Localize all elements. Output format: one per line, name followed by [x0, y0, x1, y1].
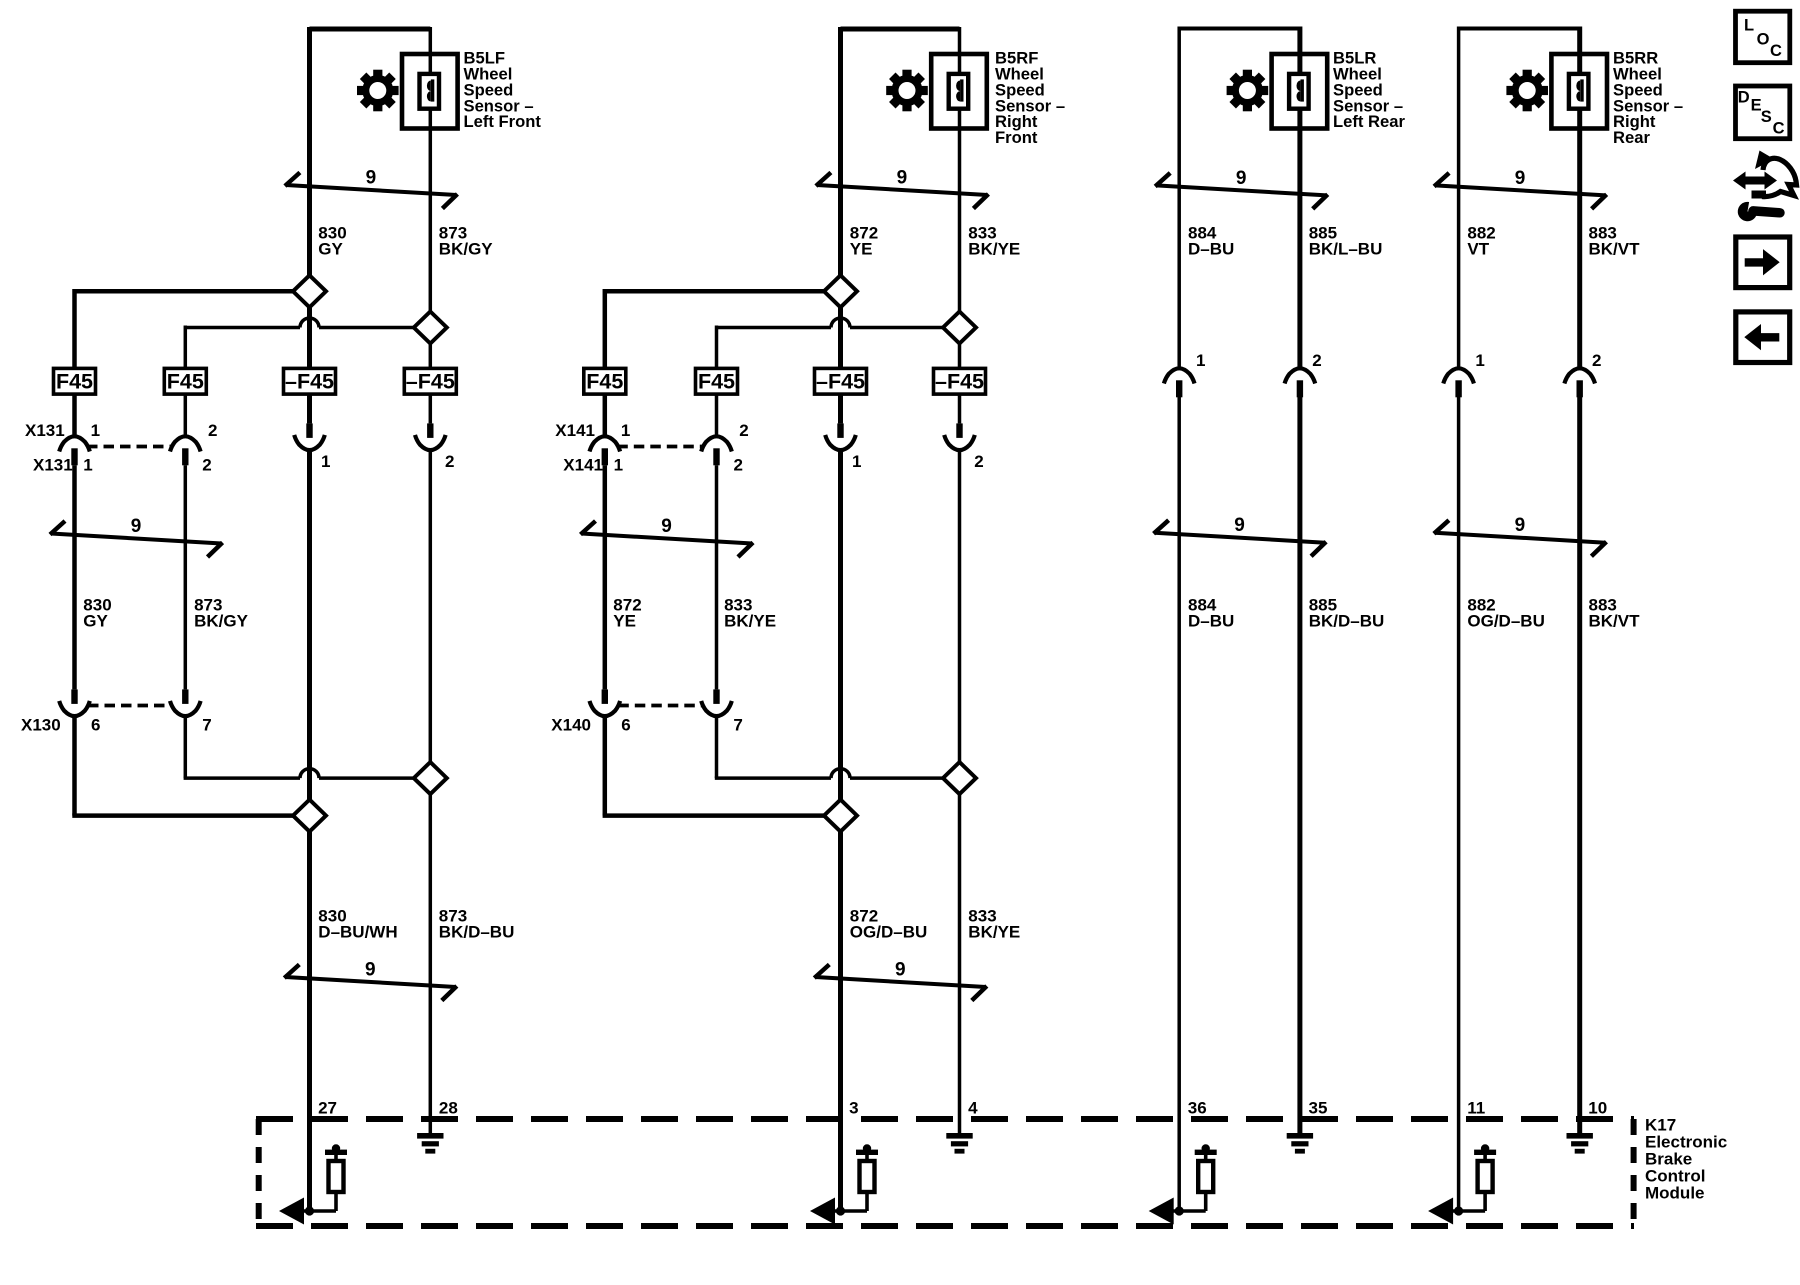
svg-text:–F45: –F45: [285, 370, 334, 394]
wire 873-circuit B5LF upper: [429, 27, 433, 368]
svg-text:830GY: 830GY: [83, 596, 111, 631]
splice B5LF S2: [414, 312, 447, 344]
wire B5LF branch 1 to X131: [72, 394, 77, 435]
wire 830-circuit B5LF upper: [307, 27, 312, 368]
svg-text:–F45: –F45: [935, 370, 984, 394]
EBCM input at pin 3: internal sense resistor: [856, 1144, 878, 1211]
svg-text:2: 2: [1312, 351, 1321, 370]
svg-text:1: 1: [852, 452, 861, 471]
fuse box –F45 (B5LF main1): [284, 368, 336, 394]
LOC box: [1736, 11, 1790, 63]
fuse box F45 (B5RF br1): [584, 368, 626, 394]
svg-text:9: 9: [1234, 515, 1245, 536]
svg-text:1: 1: [614, 456, 623, 475]
wire B5RF branch 2 mid: [715, 465, 719, 689]
inline connector B5LF main2 inline: pin (top) and female terminal: [415, 423, 446, 450]
twisted pair marker B5RF top: [816, 173, 989, 209]
svg-text:X141: X141: [563, 456, 603, 475]
EBCM input at pin 36: internal sense resistor: [1195, 1144, 1217, 1211]
wire B5RF branch 2 rejoin (hops over x=840.5): [715, 769, 950, 779]
wire B5RF main 1 to conn: [838, 394, 843, 423]
wire B5RF branch 1 to X141: [603, 394, 608, 435]
svg-text:O: O: [1757, 31, 1770, 49]
wire B5RR circuit A upper: [1457, 27, 1461, 368]
ground EBCM internal ground at pin 10: [1567, 1133, 1593, 1154]
wire B5RR circuit B lower: [1577, 397, 1582, 1134]
twisted pair marker B5RF mid: [581, 521, 754, 557]
twisted pair marker B5LF mid: [50, 521, 223, 557]
wire 873-circuit B5RF upper: [958, 27, 962, 368]
wire B5RF branch 1 upper: [603, 289, 608, 368]
svg-text:–F45: –F45: [816, 370, 865, 394]
svg-text:S: S: [1761, 108, 1772, 126]
fuse box F45 (B5LF br2): [164, 368, 206, 394]
inline connector B5RR inline pin 2: female terminal (top) and pin: [1564, 368, 1595, 397]
svg-text:F45: F45: [586, 370, 623, 394]
twisted pair marker B5LR mid: [1154, 520, 1327, 556]
inline connector X131 pin 1: female terminal (top) and pin: [59, 436, 90, 465]
wire B5RF main 2 to conn: [958, 394, 962, 423]
wire B5LF branch 1 upper: [72, 289, 77, 368]
fuse box –F45 (B5RF main1): [815, 368, 867, 394]
wire B5RF branch 2 upper: [715, 326, 719, 369]
inline connector X141 pin 1: female terminal (top) and pin: [590, 436, 621, 465]
svg-text:9: 9: [895, 960, 906, 981]
inline connector B5LR inline pin 2: female terminal (top) and pin: [1285, 368, 1316, 397]
inline connector X130 pin 6: pin (top) and female terminal: [59, 689, 90, 716]
wire 830-circuit B5RF upper: [838, 27, 843, 368]
svg-text:2: 2: [445, 452, 454, 471]
twisted pair marker B5RF bottom: [814, 965, 987, 1001]
wire B5LF branch 2 rejoin (hops over x=309.5): [184, 769, 421, 779]
svg-text:6: 6: [91, 716, 100, 735]
wire B5RF sensor jumper (top): [841, 27, 960, 32]
wire B5LR circuit A upper: [1177, 27, 1181, 368]
svg-text:9: 9: [661, 516, 672, 537]
wheel speed sensor B5LF body: [402, 54, 458, 129]
svg-text:X131: X131: [25, 421, 65, 440]
wire B5RF branch 2 lower: [715, 716, 719, 778]
wire B5LF branch 1 mid: [72, 465, 77, 689]
wire B5RF main 2 mid: [958, 451, 962, 1134]
wire B5LF branch 1 rejoin: [72, 813, 299, 818]
twisted pair marker B5RR mid: [1434, 520, 1607, 556]
svg-text:2: 2: [1592, 351, 1601, 370]
svg-text:D: D: [1738, 88, 1750, 106]
wrench part of icon: [1737, 196, 1781, 223]
tone wheel (gear) of B5RF: [886, 70, 928, 112]
connector dashed link X131: [87, 445, 171, 449]
wire B5LF branch 1 lower: [72, 716, 77, 815]
backward reference arrow box: [1736, 312, 1790, 363]
wire B5LF branch 2 lower: [184, 716, 188, 778]
wire B5RF branch 1 lower: [603, 716, 608, 815]
svg-text:9: 9: [366, 168, 377, 189]
inline connector B5LF main1 inline: pin (top) and female terminal: [294, 423, 325, 450]
EBCM input at pin 3: internal wire and arrow: [810, 1198, 867, 1225]
svg-text:1: 1: [91, 421, 100, 440]
twisted pair marker B5RR top: [1434, 173, 1607, 209]
inline connector B5LR inline pin 1: female terminal (top) and pin: [1164, 368, 1195, 397]
wire B5LR circuit B lower: [1297, 397, 1302, 1134]
tone wheel (gear) of B5RR: [1506, 70, 1548, 112]
wire B5RR circuit A lower: [1457, 397, 1461, 1211]
twisted pair marker B5LF bottom: [284, 965, 457, 1001]
wheel speed sensor B5LR body: [1272, 54, 1328, 129]
EBCM input at pin 36: internal wire and arrow: [1149, 1198, 1206, 1225]
svg-text:2: 2: [974, 452, 983, 471]
EBCM input at pin 27: internal sense resistor: [325, 1144, 347, 1211]
svg-text:6: 6: [621, 716, 630, 735]
inline connector B5RR inline pin 1: female terminal (top) and pin: [1443, 368, 1474, 397]
wire B5LR sensor jumper (top): [1179, 27, 1300, 31]
svg-text:9: 9: [365, 960, 376, 981]
wire B5LF main 2 to conn: [429, 394, 433, 423]
svg-text:10: 10: [1588, 1099, 1607, 1118]
wire B5LR circuit B upper: [1297, 27, 1302, 368]
splice B5RF S1: [824, 275, 857, 307]
wire B5LF main 1 mid: [307, 451, 312, 1211]
wheel speed sensor B5RF body: [931, 54, 987, 129]
tone wheel (gear) of B5LF: [357, 70, 399, 112]
twisted pair marker B5LR top: [1155, 173, 1328, 209]
splice B5LF S1: [293, 275, 326, 307]
wire B5LF branch 2 mid: [184, 465, 188, 689]
inline connector B5RF main2 inline: pin (top) and female terminal: [944, 423, 975, 450]
svg-text:28: 28: [439, 1099, 458, 1118]
ground EBCM internal ground at pin 35: [1287, 1133, 1313, 1154]
svg-text:2: 2: [208, 421, 217, 440]
svg-text:L: L: [1744, 16, 1754, 34]
svg-text:3: 3: [849, 1099, 858, 1118]
svg-text:27: 27: [318, 1099, 337, 1118]
svg-text:36: 36: [1188, 1099, 1207, 1118]
tone wheel (gear) of B5LR: [1227, 70, 1269, 112]
EBCM input at pin 27: internal wire and arrow: [279, 1198, 336, 1225]
inline connector X130 pin 7: pin (top) and female terminal: [170, 689, 201, 716]
svg-text:9: 9: [1515, 515, 1526, 536]
wire B5RF splice branch 1: [605, 289, 831, 294]
splice B5LF S3: [293, 800, 326, 832]
splice B5LF S4: [414, 762, 447, 794]
wheel speed sensor B5RR body: [1551, 54, 1607, 129]
svg-text:X130: X130: [21, 716, 61, 735]
wire B5LF splice branch 2 (hops over x=309.5): [185, 318, 420, 327]
EBCM input at pin 11: internal wire and arrow: [1428, 1198, 1485, 1225]
fuse box F45 (B5LF br1): [54, 368, 96, 394]
inline connector X140 pin 7: pin (top) and female terminal: [701, 689, 732, 716]
svg-text:–F45: –F45: [406, 370, 455, 394]
connector dashed link X141: [617, 445, 702, 449]
connector dashed link X130: [88, 704, 171, 708]
forward reference arrow box: [1736, 237, 1790, 288]
ground EBCM internal ground at pin 4: [946, 1133, 972, 1154]
wire B5RF splice branch 2 (hops over x=840.5): [717, 318, 950, 327]
module K17 dashed outline: [256, 1119, 1634, 1226]
svg-text:4: 4: [968, 1099, 978, 1118]
svg-text:2: 2: [734, 456, 743, 475]
fuse box –F45 (B5LF main2): [404, 368, 456, 394]
wire B5RF main 1 mid: [838, 451, 843, 1211]
ground EBCM internal ground at pin 28: [417, 1133, 443, 1154]
twisted pair marker B5LF top: [285, 173, 458, 209]
svg-text:F45: F45: [698, 370, 735, 394]
svg-text:2: 2: [202, 456, 211, 475]
svg-text:1: 1: [321, 452, 330, 471]
svg-text:F45: F45: [167, 370, 204, 394]
svg-text:830GY: 830GY: [318, 224, 346, 259]
wire B5RF branch 1 mid: [603, 465, 608, 689]
fuse box –F45 (B5RF main2): [934, 368, 986, 394]
svg-text:1: 1: [621, 421, 630, 440]
svg-text:7: 7: [202, 716, 211, 735]
svg-text:C: C: [1773, 120, 1785, 138]
connector dashed link X140: [618, 704, 702, 708]
splice B5RF S4: [943, 762, 976, 794]
EBCM input at pin 11: internal sense resistor: [1474, 1144, 1496, 1211]
wire B5LF main 1 to conn: [307, 394, 312, 423]
svg-text:1: 1: [1196, 351, 1205, 370]
inline connector X140 pin 6: pin (top) and female terminal: [590, 689, 621, 716]
inline connector X131 pin 2: female terminal (top) and pin: [170, 436, 201, 465]
wire B5RF branch 2 to X141: [715, 394, 719, 435]
inline connector X141 pin 2: female terminal (top) and pin: [701, 436, 732, 465]
svg-text:1: 1: [83, 456, 92, 475]
svg-text:2: 2: [739, 421, 748, 440]
svg-text:9: 9: [897, 168, 908, 189]
svg-text:C: C: [1770, 42, 1782, 60]
inline connector B5RF main1 inline: pin (top) and female terminal: [825, 423, 856, 450]
wire B5LR circuit A lower: [1177, 397, 1181, 1211]
fuse box F45 (B5RF br2): [696, 368, 738, 394]
splice B5RF S2: [943, 312, 976, 344]
svg-text:9: 9: [1236, 168, 1247, 189]
svg-text:F45: F45: [56, 370, 93, 394]
wire B5RR sensor jumper (top): [1459, 27, 1580, 31]
wire B5LF sensor jumper (top): [310, 27, 431, 32]
wire B5LF main 2 mid: [429, 451, 433, 1134]
svg-text:X140: X140: [551, 716, 591, 735]
svg-text:9: 9: [1515, 168, 1526, 189]
svg-text:9: 9: [131, 516, 142, 537]
wire B5LF splice branch 1: [75, 289, 300, 294]
wire B5RF branch 1 rejoin: [603, 813, 831, 818]
connector-repair icon (arrows and wrench): [1733, 151, 1797, 224]
wire B5LF branch 2 to X131: [184, 394, 188, 435]
svg-text:1: 1: [1475, 351, 1484, 370]
svg-text:7: 7: [733, 716, 742, 735]
splice B5RF S3: [824, 800, 857, 832]
wire B5RR circuit B upper: [1577, 27, 1582, 368]
svg-text:X131: X131: [33, 456, 73, 475]
svg-text:X141: X141: [555, 421, 595, 440]
svg-text:35: 35: [1309, 1099, 1328, 1118]
wire B5LF branch 2 upper: [184, 326, 188, 369]
DESC box: [1736, 86, 1790, 139]
svg-text:11: 11: [1467, 1099, 1485, 1118]
